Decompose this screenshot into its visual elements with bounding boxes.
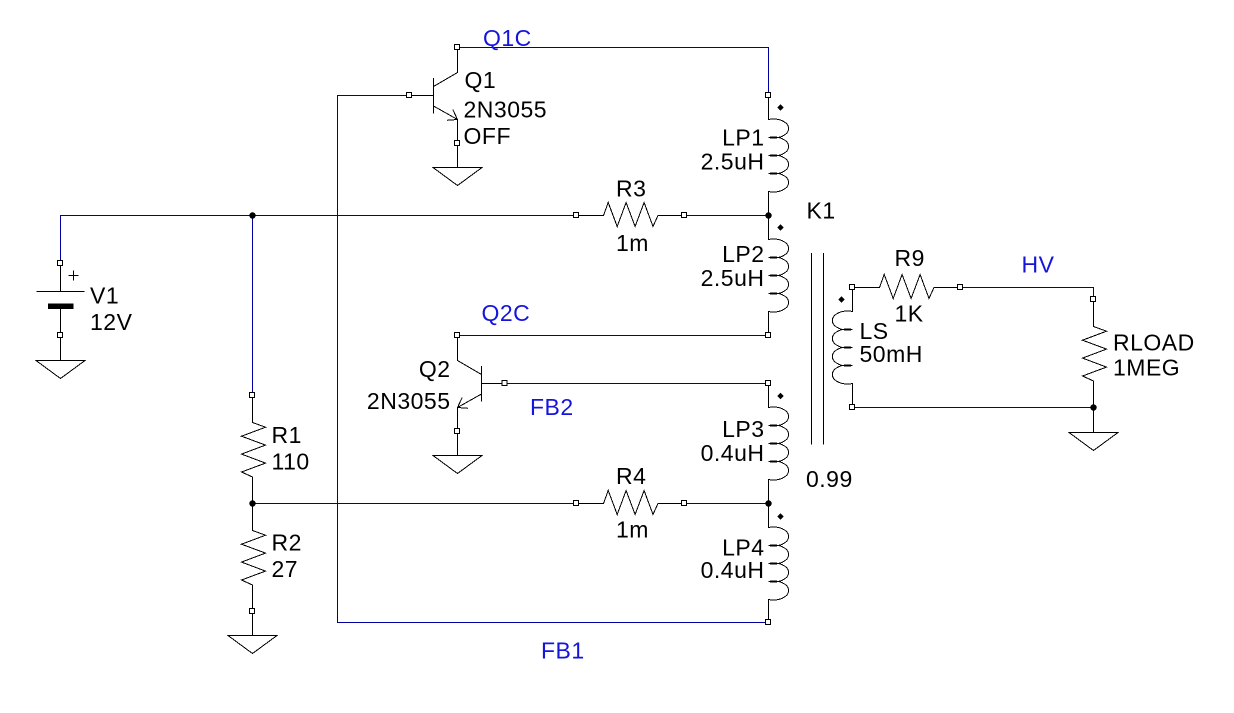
svg-text:Q1C: Q1C bbox=[483, 25, 532, 51]
pin Q1 base bbox=[407, 93, 412, 98]
svg-text:Q2: Q2 bbox=[419, 356, 451, 382]
resistor R9 body bbox=[853, 275, 962, 299]
svg-text:R9: R9 bbox=[895, 245, 925, 271]
svg-text:0.4uH: 0.4uH bbox=[701, 557, 765, 583]
svg-text:2.5uH: 2.5uH bbox=[701, 265, 765, 291]
pin R3 left bbox=[574, 213, 579, 218]
svg-text:FB1: FB1 bbox=[541, 637, 585, 663]
wire rail to R1 bbox=[252, 216, 254, 396]
pin R2 bottom bbox=[250, 609, 255, 614]
wire V1 minus to ground bbox=[60, 336, 62, 361]
svg-text:RLOAD: RLOAD bbox=[1113, 330, 1195, 356]
svg-text:Q1: Q1 bbox=[465, 67, 497, 93]
junction R1/R2 bbox=[249, 500, 255, 506]
svg-text:50mH: 50mH bbox=[860, 341, 923, 367]
transistor Q1 (NPN 2N3055) bbox=[410, 48, 458, 144]
polarity dot LP3 bbox=[777, 393, 783, 399]
svg-text:R4: R4 bbox=[616, 463, 646, 489]
polarity dot LP1 bbox=[777, 104, 783, 110]
transistor Q2 (NPN 2N3055, mirrored) bbox=[458, 336, 506, 432]
svg-text:1K: 1K bbox=[895, 301, 924, 327]
pin R3 right bbox=[682, 213, 687, 218]
inductor LP2 winding bbox=[769, 216, 789, 336]
inductor LP3 winding bbox=[769, 384, 789, 504]
svg-text:FB2: FB2 bbox=[530, 394, 574, 420]
junction K1 lower tap bbox=[765, 500, 771, 506]
wire Q1 base / FB1 net to LP4 bbox=[338, 96, 769, 623]
wire HV net: R9 to RLOAD bbox=[961, 288, 1094, 300]
wire Q1C net: Q1 collector to LP1 bbox=[458, 48, 769, 96]
svg-text:LP3: LP3 bbox=[722, 416, 764, 442]
pin R4 left bbox=[574, 501, 579, 506]
pin LP4 bottom bbox=[766, 620, 771, 625]
svg-text:R1: R1 bbox=[272, 422, 302, 448]
svg-text:K1: K1 bbox=[807, 198, 836, 224]
pin LS bottom bbox=[850, 405, 855, 410]
wire R4 to lower tap bbox=[685, 503, 769, 505]
svg-text:0.99: 0.99 bbox=[806, 466, 853, 492]
pin R9 right bbox=[958, 285, 963, 290]
svg-text:27: 27 bbox=[272, 556, 299, 582]
wire R2 to ground bbox=[252, 612, 254, 636]
wire Q2C net: Q2 collector to LP2 bbox=[458, 335, 769, 337]
wire Q1 emitter to ground bbox=[457, 144, 459, 168]
pin V1 - bbox=[58, 333, 63, 338]
pin Q2 emitter bbox=[455, 429, 460, 434]
svg-text:2N3055: 2N3055 bbox=[367, 388, 451, 414]
resistor R3 body bbox=[577, 203, 686, 227]
resistor R2 body bbox=[242, 504, 266, 613]
battery V1 bbox=[37, 264, 85, 336]
svg-text:R2: R2 bbox=[272, 530, 302, 556]
polarity dot LP2 bbox=[777, 224, 783, 230]
pin V1 + bbox=[58, 261, 63, 266]
transformer core K1 bbox=[812, 253, 824, 445]
junction K1 upper tap bbox=[765, 212, 771, 218]
polarity dot LS bbox=[838, 296, 844, 302]
pin Q1 collector bbox=[455, 45, 460, 50]
wire R1/R2 junction to R4 bbox=[253, 503, 577, 505]
pin LP1 top bbox=[766, 93, 771, 98]
svg-text:1MEG: 1MEG bbox=[1113, 354, 1180, 380]
svg-text:2N3055: 2N3055 bbox=[464, 96, 548, 122]
junction rail/R1 bbox=[249, 212, 255, 218]
svg-text:HV: HV bbox=[1022, 252, 1055, 278]
ground below Q2 bbox=[433, 456, 482, 474]
ground below Q1 bbox=[433, 168, 482, 186]
resistor RLOAD body bbox=[1083, 300, 1107, 409]
resistor R1 body bbox=[242, 396, 266, 505]
pin Q2 collector bbox=[455, 333, 460, 338]
junction RLOAD bottom bbox=[1090, 404, 1096, 410]
polarity dot LP4 bbox=[777, 513, 783, 519]
wire V1 to rail to R3 bbox=[61, 216, 577, 264]
inductor LP4 winding bbox=[769, 504, 789, 623]
svg-text:OFF: OFF bbox=[464, 123, 512, 149]
svg-text:0.4uH: 0.4uH bbox=[701, 440, 765, 466]
pin Q1 emitter bbox=[455, 141, 460, 146]
svg-text:LP2: LP2 bbox=[722, 241, 764, 267]
wire RLOAD to ground bbox=[1093, 408, 1095, 433]
ground below R2 bbox=[228, 636, 277, 654]
svg-text:Q2C: Q2C bbox=[482, 300, 531, 326]
svg-text:12V: 12V bbox=[90, 309, 133, 335]
svg-text:1m: 1m bbox=[616, 230, 649, 256]
svg-text:R3: R3 bbox=[616, 175, 646, 201]
pin LP2 bottom bbox=[766, 333, 771, 338]
wire R3 to K1 tap bbox=[685, 215, 769, 217]
svg-text:V1: V1 bbox=[90, 282, 119, 308]
pin LS top / R9 left bbox=[850, 285, 855, 290]
inductor LP1 winding bbox=[769, 96, 789, 216]
ground below V1 bbox=[36, 361, 85, 379]
svg-text:2.5uH: 2.5uH bbox=[701, 149, 765, 175]
svg-text:1m: 1m bbox=[616, 517, 649, 543]
svg-text:110: 110 bbox=[272, 449, 310, 475]
pin RLOAD top bbox=[1091, 297, 1096, 302]
pin R4 right bbox=[682, 501, 687, 506]
inductor LS winding bbox=[832, 288, 852, 408]
wire FB2 net: Q2 base to LP3 bbox=[505, 383, 769, 385]
ground below RLOAD bbox=[1069, 433, 1118, 451]
svg-text:LP1: LP1 bbox=[722, 125, 764, 151]
wire LS bottom to RLOAD bottom bbox=[853, 407, 1094, 409]
resistor R4 body bbox=[577, 491, 686, 515]
pin Q2 base bbox=[502, 381, 507, 386]
wire Q2 emitter to ground bbox=[457, 432, 459, 456]
pin LP3 top bbox=[766, 381, 771, 386]
pin R1 top bbox=[250, 393, 255, 398]
